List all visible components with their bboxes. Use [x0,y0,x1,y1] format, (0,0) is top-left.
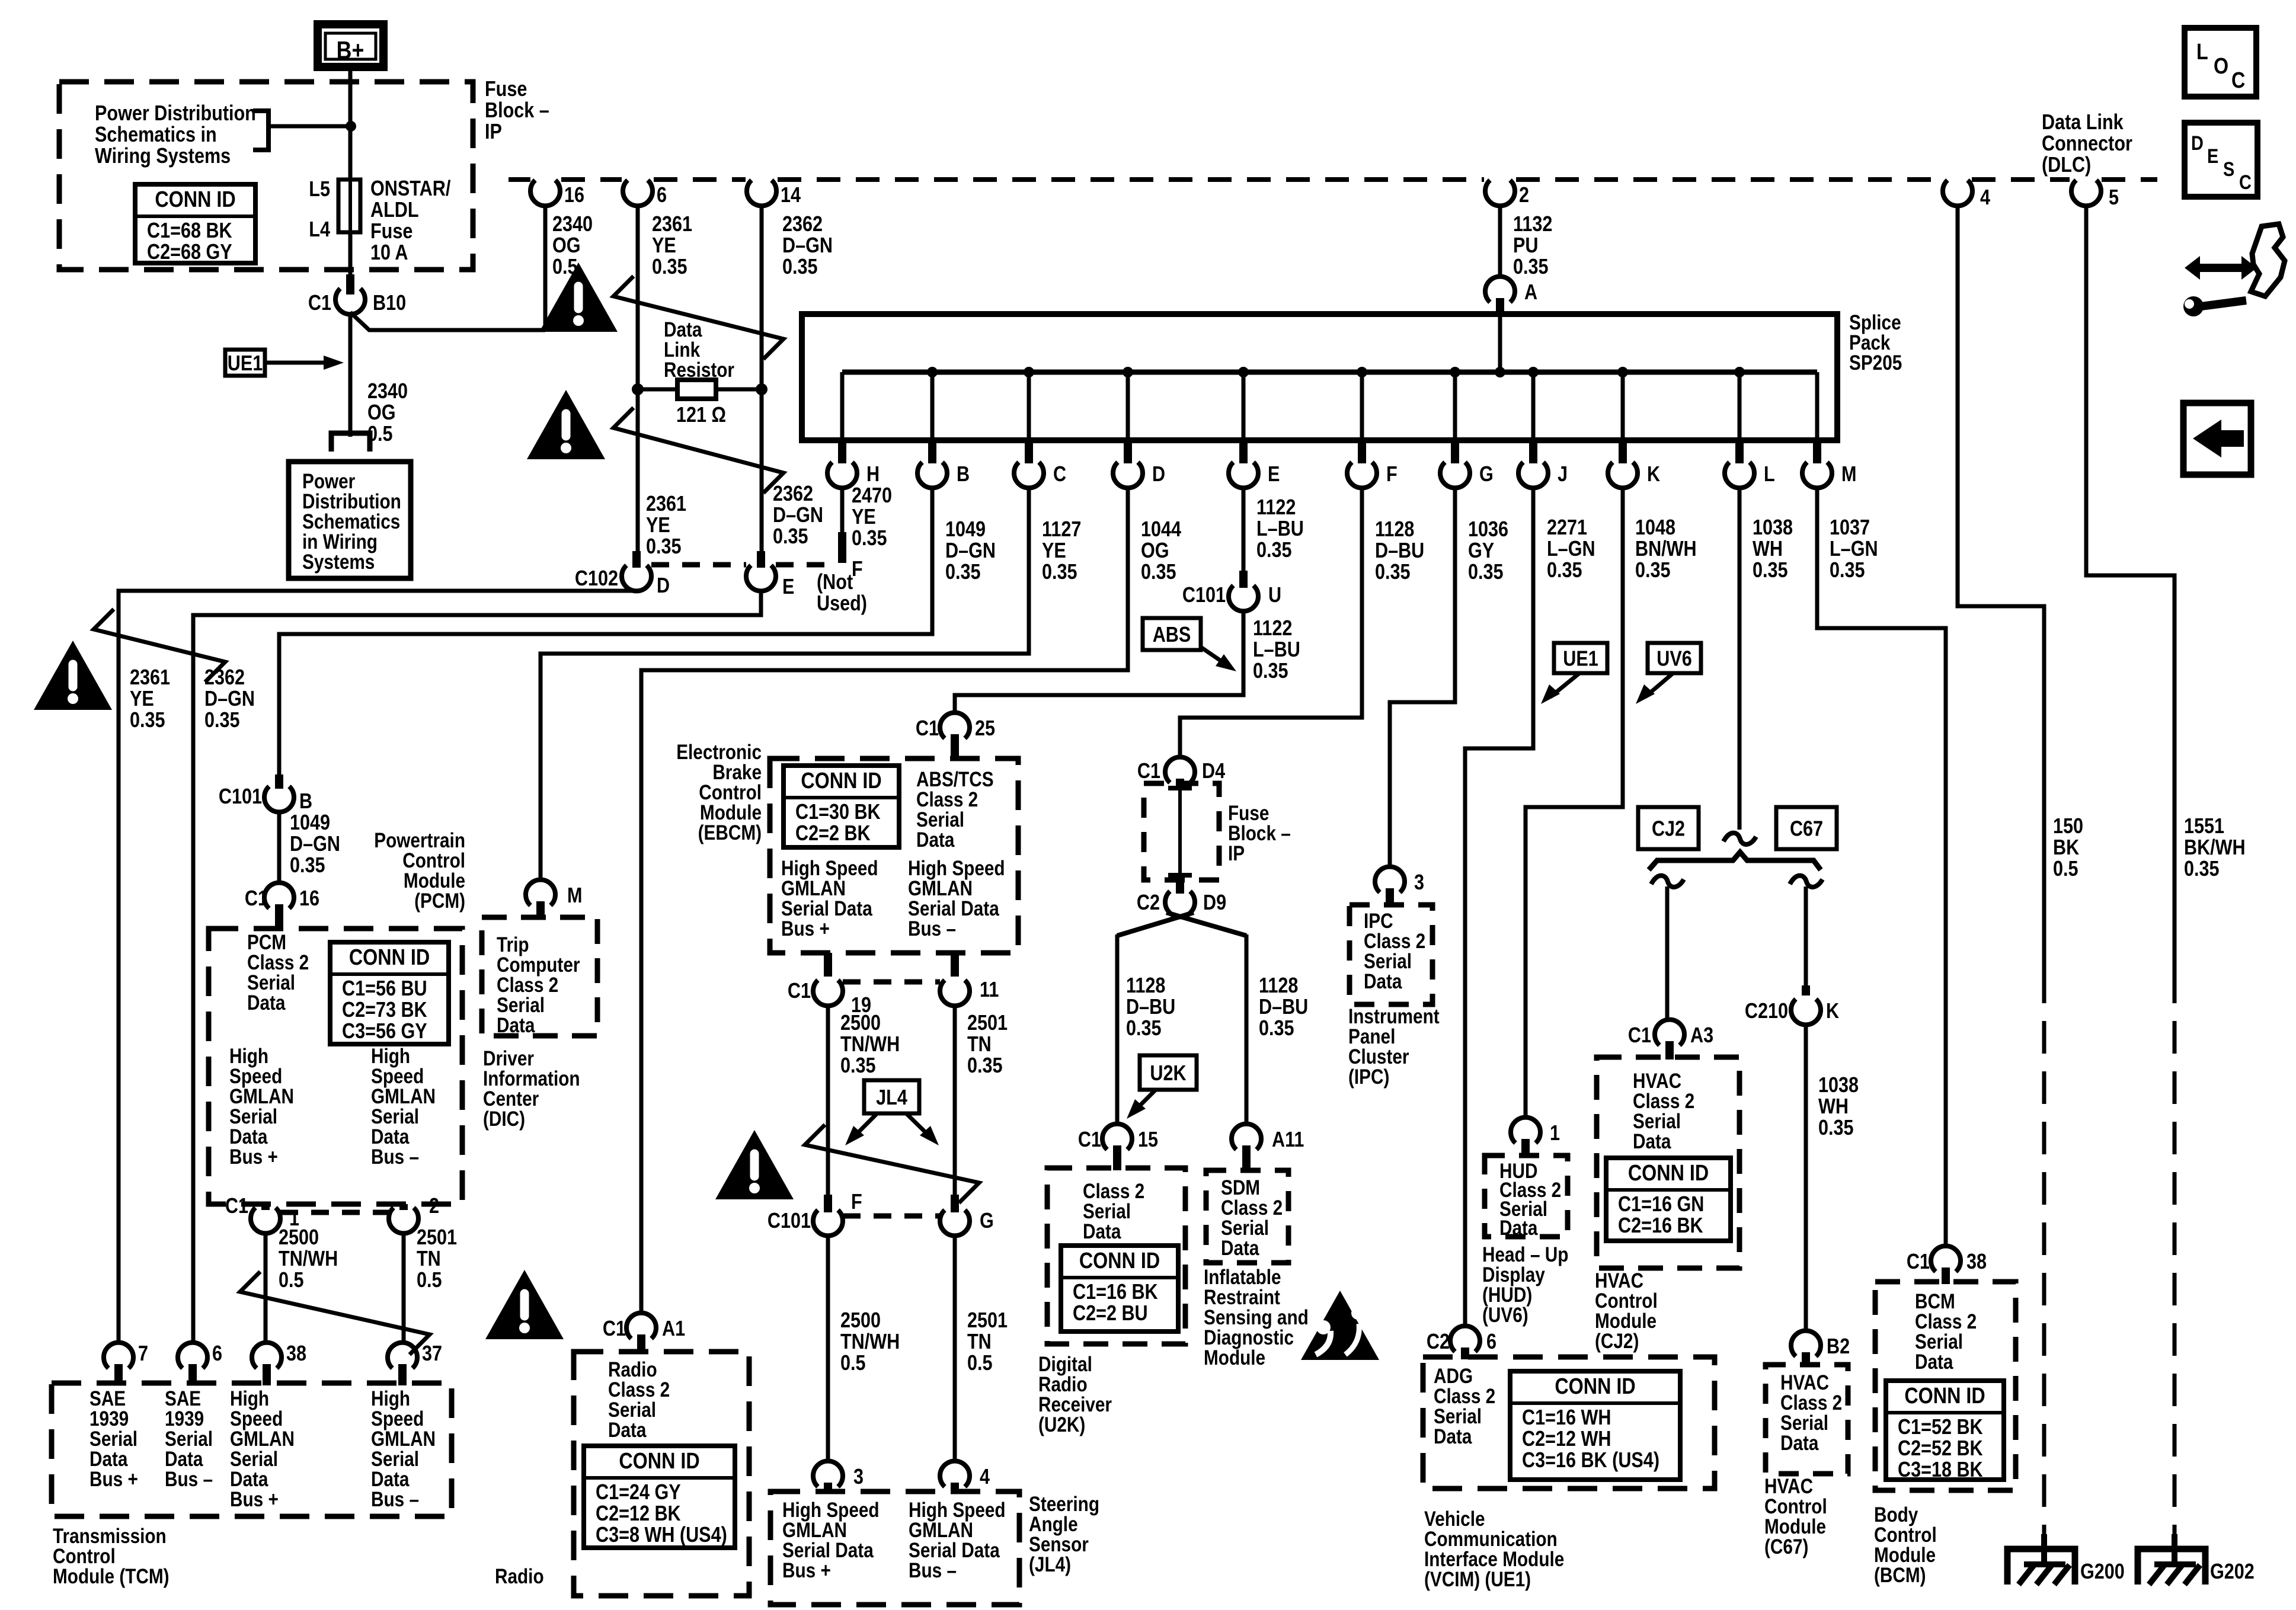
connector C101 G [951,1195,959,1212]
svg-text:16: 16 [299,887,319,911]
crossed-wire arrow left [94,609,225,682]
icon DESC box [2185,123,2257,197]
CONN ID box U2K [1061,1246,1178,1331]
svg-text:C2: C2 [1137,891,1160,915]
svg-text:C1=52 BK: C1=52 BK [1898,1416,1983,1439]
ground G200 [2007,1549,2075,1585]
wire D 1044 OG to radio [641,486,1128,1313]
connector C1 1 PCM [261,1204,270,1210]
svg-text:G200: G200 [2080,1560,2125,1584]
svg-text:C101: C101 [1182,584,1226,607]
svg-text:CONN ID: CONN ID [619,1449,699,1474]
module box Trip Computer dashed [482,917,597,1036]
module box Fuse Block IP dashed [1144,783,1219,880]
svg-text:7: 7 [138,1342,148,1366]
svg-text:L: L [1764,463,1775,486]
connector B2 [1791,1331,1821,1356]
CONN ID box BCM [1886,1381,2004,1480]
svg-text:S: S [2223,158,2234,181]
module box BCM dashed [1875,1282,2016,1490]
svg-text:ABS: ABS [1153,623,1191,647]
wire 2500 TN/WH 0.5 to TCM 38 [264,1233,268,1343]
svg-text:C1: C1 [788,980,811,1003]
resistor Data Link 121 ohm [638,388,677,392]
svg-text:C2: C2 [1427,1330,1450,1354]
svg-text:C1: C1 [1628,1024,1651,1048]
wire to PCM C1 16 [277,812,282,883]
staple connector to power dist box [331,433,370,452]
module box PCM dashed [209,929,462,1204]
crossed-wire arrow C101 pair [805,1125,979,1203]
connector 11 EBCM [951,953,959,977]
wire J 2271 L-GN to VCIM [1465,486,1533,1326]
connector A splice input [1485,277,1515,302]
svg-text:A: A [1524,281,1537,305]
splice tap K [1617,367,1628,377]
connector pin 6 [623,180,653,206]
wire bracket to B+ feed [268,124,351,129]
svg-text:15: 15 [1138,1128,1158,1152]
svg-text:B10: B10 [373,292,406,315]
connector C1 A1 radio [626,1313,656,1339]
warning triangle TCM [485,1270,564,1339]
connector C101 F [824,1195,832,1212]
svg-text:C2=2 BK: C2=2 BK [795,822,871,846]
svg-text:F: F [852,558,863,581]
svg-text:C2=12 WH: C2=12 WH [1522,1427,1611,1451]
svg-text:C1=24 GY: C1=24 GY [596,1481,681,1505]
svg-text:L5: L5 [309,178,330,201]
connector C101 B [275,774,283,789]
module box HUD dashed [1485,1156,1568,1237]
corner fix [635,590,639,591]
svg-text:F: F [1386,463,1398,486]
wire 2501 TN 0.5 to TCM 37 [402,1233,406,1343]
svg-text:16: 16 [564,184,584,207]
callout UE1 right [1554,643,1607,673]
svg-text:U: U [1268,584,1281,607]
svg-text:3: 3 [853,1465,864,1489]
wire C102 D to TCM 7 2361 YE [119,590,637,591]
svg-text:E: E [782,575,794,599]
svg-text:CONN ID: CONN ID [1904,1384,1985,1409]
svg-text:C1: C1 [916,717,939,741]
svg-text:B: B [299,790,312,814]
svg-text:U2K: U2K [1150,1062,1186,1086]
connector C1 B10 [335,289,365,314]
connector 37 TCM [388,1343,417,1368]
svg-text:CONN ID: CONN ID [155,187,235,212]
svg-text:F: F [851,1190,862,1214]
svg-text:C3=8 WH (US4): C3=8 WH (US4) [596,1523,727,1547]
svg-text:CONN ID: CONN ID [1628,1161,1709,1186]
wire pin6 down [636,206,640,551]
svg-text:C: C [1053,463,1066,486]
callout JL4 [864,1080,919,1113]
module box TCM dashed [52,1383,452,1516]
svg-text:1: 1 [1550,1122,1560,1145]
wire M 1037 L-GN to BCM [1817,486,1946,1246]
wire H 2470 YE not used [840,486,845,534]
wire B 1049 D-GN [279,486,932,776]
brace distribution CJ2/C67 [1649,852,1821,870]
svg-text:C101: C101 [768,1209,811,1233]
dashed boundary C101 [843,1214,940,1219]
svg-text:C2=12 BK: C2=12 BK [596,1502,681,1526]
svg-text:C1=68 BK: C1=68 BK [147,219,232,243]
warning triangle airbag [1301,1291,1379,1360]
svg-text:C1: C1 [1078,1128,1101,1152]
svg-text:G: G [980,1209,994,1233]
wire DLC 5 1551 BK/WH to G202 [2086,206,2175,971]
connector C102 D [632,551,641,568]
svg-text:6: 6 [212,1342,222,1366]
svg-text:UV6: UV6 [1657,647,1692,671]
connector A11 SDM [1232,1124,1261,1150]
svg-text:11: 11 [980,978,999,1002]
svg-text:K: K [1647,463,1660,486]
svg-text:D4: D4 [1202,760,1225,783]
wire L 1038 WH to brace [1738,486,1742,830]
wire U to EBCM C1 25 [955,611,1243,713]
CONN ID box HVAC CJ2 [1606,1158,1731,1241]
CONN ID box VCIM [1510,1371,1680,1480]
wire G 1036 GY to IPC [1390,486,1455,867]
wire F 1128 D-BU to fuse block [1180,486,1362,757]
power node B+ [318,24,383,67]
callout ABS [1143,618,1201,650]
connector C1 38 BCM [1931,1246,1961,1272]
svg-text:C3=56 GY: C3=56 GY [342,1020,427,1044]
wire pin14 down [760,206,764,551]
svg-text:4: 4 [980,1465,990,1489]
svg-text:C1: C1 [225,1195,248,1218]
svg-text:E: E [1268,463,1280,486]
wire B10 down 2340 OG [348,313,353,433]
splice pack inner bus [842,370,1817,375]
connector C2 D9 [1165,891,1195,917]
splice tap F [1357,367,1367,377]
svg-text:B: B [957,463,970,486]
wire end curl L [1723,833,1756,844]
junction dot [346,121,356,132]
svg-text:C1=56 BU: C1=56 BU [342,977,427,1001]
splice tap C [1024,367,1034,377]
splice dot A [1495,367,1505,377]
wire DLC 4 150 BK to G200 [1958,206,2044,971]
svg-text:CONN ID: CONN ID [1555,1374,1635,1399]
svg-text:Radio: Radio [495,1565,544,1588]
svg-text:E: E [2207,145,2218,168]
wire B+ down to fuse [348,67,353,180]
arrow UE1 to wire [265,361,330,365]
svg-text:C1: C1 [308,292,331,315]
connector 6 TCM [178,1343,207,1368]
connector pin 16 [530,180,560,206]
CONN ID box Radio [584,1446,735,1548]
splice tap M [1815,372,1819,440]
fuse element [1168,786,1192,790]
svg-text:J: J [1558,463,1568,486]
CONN ID box PCM [330,942,449,1044]
svg-text:A11: A11 [1272,1128,1304,1152]
svg-text:C1=30 BK: C1=30 BK [795,801,881,824]
svg-text:C210: C210 [1745,1000,1788,1023]
wire E 1122 L-BU [1242,486,1246,572]
wire 1038 WH to HVAC C67 B2 [1804,1025,1808,1331]
module box SDM dashed [1206,1170,1288,1263]
connector 38 TCM [252,1343,282,1368]
connector pin 5 DLC [2071,180,2101,206]
dashed boundary C1 EBCM [843,980,940,985]
svg-text:C1: C1 [1907,1250,1930,1274]
callout CJ2 [1638,807,1699,849]
svg-text:G: G [1479,463,1494,486]
splice tap J [1528,367,1539,377]
svg-text:M: M [1841,463,1856,486]
svg-text:C3=16 BK (US4): C3=16 BK (US4) [1522,1449,1659,1473]
svg-text:UE1: UE1 [228,352,263,376]
svg-text:G202: G202 [2210,1560,2255,1584]
connector C1 25 EBCM [940,713,970,738]
CONN ID box EBCM [784,766,899,847]
wire split X to U2K and SDM [1117,913,1194,936]
svg-text:C102: C102 [575,567,618,591]
wire 2500 TN/WH 0.35 [826,1006,830,1197]
module box HVAC CJ2 dashed [1597,1057,1739,1268]
module box U2K Class 2 dashed [1047,1168,1185,1344]
connector 3 IPC [1375,867,1405,892]
svg-text:O: O [2214,54,2228,79]
wire B10 branch to fuse block pin 16 [350,312,545,330]
connector C101 U [1239,571,1248,588]
wire branch to HVAC CJ2 C1 A3 [1651,876,1684,887]
wire K 1048 BN/WH to HUD [1526,486,1623,1118]
wire branch to C210 K [1790,876,1822,887]
wire 2500 TN/WH 0.5 to SAS 3 [826,1235,830,1461]
module box Radio dashed [574,1352,749,1596]
svg-text:6: 6 [1486,1330,1496,1354]
connector C2 6 VCIM [1450,1326,1480,1352]
module box HVAC C67 dashed [1766,1365,1848,1474]
svg-text:M: M [567,884,582,908]
connector pin 2 DLC [1485,180,1515,206]
svg-text:6: 6 [657,184,667,207]
dashed boundary C1 PCM [280,1210,389,1215]
fuse block IP dashed box [59,82,473,270]
svg-text:37: 37 [422,1342,442,1366]
svg-text:121 Ω: 121 Ω [676,404,726,427]
svg-text:A1: A1 [662,1317,685,1341]
callout C67 [1776,807,1837,849]
svg-text:JL4: JL4 [876,1086,907,1110]
callout U2K [1140,1055,1197,1090]
splice tap E [1238,367,1249,377]
module box Steering Angle Sensor dashed [770,1491,1019,1605]
svg-text:38: 38 [286,1342,306,1366]
connector 3 SAS [813,1461,843,1487]
connector 1 HUD [1511,1118,1540,1143]
svg-text:C2=73 BK: C2=73 BK [342,998,427,1022]
svg-text:CONN ID: CONN ID [801,769,881,793]
connector pin 4 DLC [1943,180,1972,206]
crossed-wire arrow TCM pair [240,1272,430,1355]
connector C1 15 U2K [1102,1124,1132,1150]
svg-text:25: 25 [975,717,995,741]
svg-text:CJ2: CJ2 [1652,817,1685,841]
svg-text:C2=16 BK: C2=16 BK [1618,1214,1703,1238]
warning triangle C101 [715,1130,794,1199]
connector C210 K [1802,985,1810,996]
connector C1 A3 [1655,1020,1684,1045]
splice tap L [1734,367,1745,377]
svg-text:C: C [2231,68,2245,93]
connector C1 2 PCM [399,1204,408,1210]
svg-text:C101: C101 [219,785,262,809]
wire pin2 to splice A [1498,206,1502,277]
svg-text:A3: A3 [1690,1024,1713,1048]
connector C102 E [757,551,765,568]
connector M DIC [526,880,555,905]
warning triangle left [34,641,112,710]
splice pack SP205 outer box [802,314,1837,440]
module box EBCM dashed [770,758,1018,953]
svg-text:C2=2 BU: C2=2 BU [1073,1302,1148,1326]
label UE1 callout [225,350,265,376]
svg-text:D: D [2191,132,2204,155]
connector pin 14 [747,180,776,206]
svg-text:D: D [1152,463,1165,486]
connector C1 16 PCM [264,883,294,908]
svg-text:C2=52 BK: C2=52 BK [1898,1437,1983,1461]
svg-text:C1: C1 [603,1317,626,1341]
svg-text:K: K [1826,1000,1839,1023]
svg-text:2: 2 [429,1195,439,1218]
svg-text:CONN ID: CONN ID [1079,1249,1160,1273]
warning triangle lower [527,390,605,459]
svg-text:L4: L4 [309,218,330,242]
splice tap B [927,367,938,377]
svg-text:CONN ID: CONN ID [349,945,430,970]
svg-text:B+: B+ [337,37,364,64]
svg-text:H: H [866,463,880,486]
connector 4 SAS [940,1461,970,1487]
svg-text:C1: C1 [245,887,268,911]
connector C1 19 EBCM [824,953,832,977]
ground G202 [2138,1549,2205,1585]
module box VCIM dashed [1423,1357,1715,1489]
svg-text:38: 38 [1966,1250,1987,1274]
callout UV6 [1648,643,1701,673]
crossed-wire arrow upper [613,276,784,359]
icon wiring repair [2185,256,2257,280]
svg-text:D: D [657,574,670,598]
wire C 1127 YE to DIC [541,486,1029,880]
svg-text:UE1: UE1 [1563,647,1598,671]
svg-text:L: L [2196,40,2208,65]
svg-text:5: 5 [2109,186,2119,210]
svg-text:C1=16 WH: C1=16 WH [1522,1406,1611,1430]
icon LOC box [2185,28,2256,97]
wire fuse to C1 B10 [348,232,353,276]
icon back arrow box [2183,403,2251,475]
svg-text:C67: C67 [1790,817,1823,841]
svg-text:C1: C1 [1137,760,1160,783]
wire C102 E to TCM 6 2362 D-GN [193,590,761,1343]
module box IPC dashed [1350,905,1432,1004]
svg-text:C1=16 BK: C1=16 BK [1073,1281,1158,1304]
wire 2501 TN 0.35 [953,1006,957,1197]
svg-text:3: 3 [1414,871,1424,895]
splice tap D [1123,367,1133,377]
svg-text:B2: B2 [1827,1335,1850,1359]
svg-text:C1=16 GN: C1=16 GN [1618,1193,1704,1217]
connector 7 TCM [104,1343,133,1368]
svg-text:2: 2 [1519,184,1529,207]
splice tap G [1450,367,1460,377]
svg-text:C3=18 BK: C3=18 BK [1898,1458,1983,1482]
svg-text:C2=68 GY: C2=68 GY [147,241,232,264]
dashed boundary fuse block IP and DLC [509,177,530,182]
svg-text:4: 4 [1980,186,1990,210]
CONN ID box fuse block [135,184,255,263]
box Power Distribution Schematics in Wiring Systems [289,462,411,578]
svg-text:D9: D9 [1203,891,1226,915]
bracket to note [253,111,268,150]
wire 2501 TN 0.5 to SAS 4 [953,1235,957,1461]
connector C1 D4 [1165,757,1195,783]
svg-text:14: 14 [781,184,801,207]
splice tap H [840,372,845,440]
crossed-wire arrow lower [613,408,784,493]
dashed boundary C102 [651,562,746,568]
warning triangle upper [539,263,618,332]
svg-text:C: C [2239,171,2252,194]
